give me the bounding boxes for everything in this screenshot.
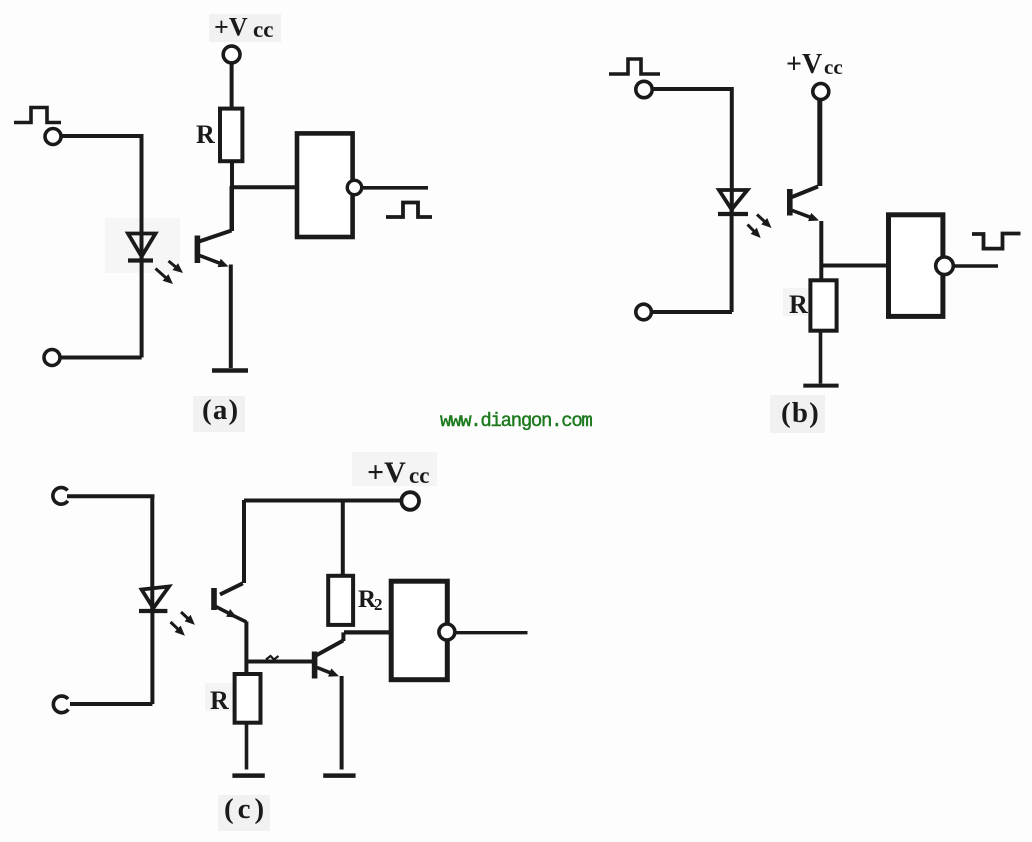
input terminal (c) top xyxy=(53,488,68,505)
ground (a) xyxy=(212,368,248,373)
wire xyxy=(819,331,823,384)
wire xyxy=(140,256,144,358)
svg-text:R: R xyxy=(210,686,229,715)
svg-text:2: 2 xyxy=(374,595,383,614)
wire xyxy=(730,209,734,312)
LED D2 (optocoupler b) xyxy=(718,190,748,214)
input pulse waveform (b) xyxy=(609,59,660,74)
svg-text:R: R xyxy=(789,290,808,319)
input terminal (b) bottom xyxy=(636,304,652,320)
wire (Vcc to collector, b) xyxy=(817,99,822,186)
phototransistor Q1 (a) xyxy=(195,186,232,368)
svg-text:+V: +V xyxy=(367,456,406,489)
light arrows (b) xyxy=(748,215,772,239)
wire (output, a) xyxy=(362,186,428,190)
wire xyxy=(61,356,142,360)
resistor R (b) xyxy=(810,280,836,330)
LED D1 (optocoupler a) xyxy=(128,234,156,261)
inverter gate U1 (b) xyxy=(889,215,954,317)
inverter gate U2 (c) xyxy=(391,581,455,680)
svg-text:R: R xyxy=(196,120,215,149)
wire xyxy=(230,161,234,231)
wire xyxy=(652,310,732,314)
wire (output, c) xyxy=(456,631,528,634)
ground (c, left) xyxy=(232,773,264,778)
wire xyxy=(70,702,152,706)
input pulse waveform (a) xyxy=(14,108,61,123)
svg-text:cc: cc xyxy=(824,55,843,79)
junction marks on base wire (c) xyxy=(266,656,279,660)
ground (c, right) xyxy=(323,773,355,778)
light arrows (a) xyxy=(156,261,184,284)
transistor Q2 (c) xyxy=(312,632,344,769)
input terminal (a) bottom xyxy=(44,350,60,366)
inverter gate U1 (a) xyxy=(297,133,362,237)
output pulse waveform (a) xyxy=(386,203,432,218)
svg-text:cc: cc xyxy=(253,17,273,42)
wire (base node, c) xyxy=(246,660,315,664)
resistor R (a) xyxy=(220,109,242,162)
Vcc terminal (a) xyxy=(223,46,240,63)
Vcc terminal (b) xyxy=(813,84,829,100)
wire xyxy=(230,63,234,109)
svg-text:www.diangon.com: www.diangon.com xyxy=(440,410,592,432)
input terminal (b) top xyxy=(636,81,652,97)
wire (R2 branch, c) xyxy=(341,501,345,577)
input terminal (a) top xyxy=(45,129,61,145)
wire (collector node to inverter input, c) xyxy=(344,630,391,634)
output pulse waveform (b) xyxy=(972,234,1021,249)
wire xyxy=(62,134,142,138)
resistor R2 (c) xyxy=(328,576,353,625)
wire xyxy=(245,723,249,770)
wire (collector node to inverter input, a) xyxy=(232,185,297,189)
phototransistor Q1 (c) xyxy=(211,500,246,675)
svg-text:+V: +V xyxy=(214,13,248,42)
ground (b) xyxy=(803,384,838,388)
wire xyxy=(730,87,734,213)
light arrows (c) xyxy=(171,612,195,636)
wire (output, b) xyxy=(954,264,998,268)
LED D3 (optocoupler c) xyxy=(139,587,169,612)
wire xyxy=(653,87,732,91)
phototransistor Q1 (b) xyxy=(787,187,821,282)
svg-text:(a): (a) xyxy=(202,394,239,426)
resistor R (c) xyxy=(235,674,261,723)
Vcc terminal (c) xyxy=(401,492,419,510)
wire xyxy=(67,494,155,498)
wire xyxy=(150,496,154,610)
svg-text:(b): (b) xyxy=(781,397,820,429)
wire (top rail, c) xyxy=(244,499,401,503)
wire (emitter node to inverter input, b) xyxy=(822,264,889,268)
wire xyxy=(150,607,154,704)
svg-text:cc: cc xyxy=(409,463,429,488)
svg-text:(c): (c) xyxy=(224,793,268,825)
wire xyxy=(140,134,144,260)
input terminal (c) bottom xyxy=(53,696,68,713)
svg-text:+V: +V xyxy=(786,49,822,80)
